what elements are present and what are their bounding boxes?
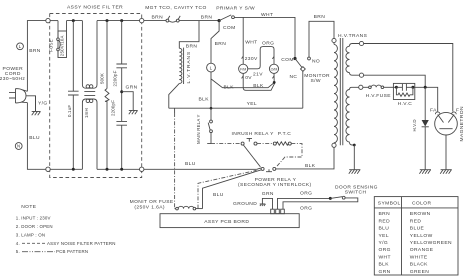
- node (500K tap bottom): [106, 168, 109, 171]
- svg-text:BLU: BLU: [185, 161, 196, 167]
- wire Y/G from plug to ground: [26, 96, 36, 112]
- fuse 250V/10A: [48, 21, 66, 58]
- svg-text:GREEN: GREEN: [410, 269, 429, 275]
- connector (bottom rail out of filter): [140, 167, 144, 171]
- svg-text:FA: FA: [430, 107, 437, 113]
- wire BRN down to lamp: [211, 21, 219, 64]
- assy noise filter dashed box: [50, 14, 142, 178]
- svg-text:3. LAMP : ON: 3. LAMP : ON: [16, 232, 45, 237]
- svg-text:MONIT OR FUSE: MONIT OR FUSE: [130, 199, 174, 205]
- svg-text:(250V 1.6A): (250V 1.6A): [134, 205, 165, 211]
- wire O/M bottom to BLK junction: [273, 73, 275, 82]
- node (0.1uF tap bottom): [72, 168, 75, 171]
- svg-text:Y/G: Y/G: [379, 240, 389, 246]
- svg-text:ASSY PCB BORD: ASSY PCB BORD: [204, 219, 249, 225]
- wire BLU from plug down to bottom rail: [27, 103, 48, 170]
- svg-text:PCB PATTERN: PCB PATTERN: [56, 249, 88, 254]
- node GRN junction: [120, 90, 123, 93]
- wire BRN from L-line top rail down to plug: [27, 21, 48, 92]
- svg-text:2200pF: 2200pF: [111, 100, 116, 116]
- svg-text:PRIMAR Y S/W: PRIMAR Y S/W: [216, 5, 255, 11]
- connector (top rail into filter): [46, 18, 50, 22]
- node N (neutral terminal circle): [15, 143, 22, 150]
- svg-text:N: N: [17, 144, 20, 149]
- svg-text:BRN: BRN: [186, 44, 198, 50]
- svg-text:RED: RED: [379, 218, 391, 224]
- wire HVC to magnetron FA: [415, 87, 438, 111]
- svg-text:2200pF: 2200pF: [113, 70, 118, 86]
- wire HV winding to ground: [353, 145, 355, 170]
- svg-text:GRN: GRN: [379, 269, 391, 275]
- svg-text:230~50Hz: 230~50Hz: [0, 76, 25, 82]
- node (500K tap top): [106, 19, 109, 22]
- svg-text:ASSY NOISE FIL TER: ASSY NOISE FIL TER: [67, 5, 123, 11]
- svg-text:5.: 5.: [16, 249, 20, 254]
- svg-text:0.1uF: 0.1uF: [67, 105, 72, 117]
- svg-text:ORG: ORG: [300, 191, 312, 197]
- node HVD top: [424, 86, 427, 89]
- relay inrush relay: [211, 131, 274, 167]
- svg-text:BLK: BLK: [224, 85, 235, 91]
- node (2200pF tap bottom): [120, 168, 123, 171]
- wire PCB pattern YEL to monitor fuse: [174, 108, 176, 113]
- svg-text:H.V.FUSE: H.V.FUSE: [366, 93, 392, 99]
- svg-text:BRN: BRN: [314, 14, 326, 20]
- wire PCB pattern PTC to power relay: [277, 144, 303, 167]
- svg-text:NC: NC: [290, 74, 298, 80]
- thermal cutout CAVITY TCO: [176, 16, 180, 22]
- svg-text:BRN: BRN: [379, 211, 391, 217]
- node (2200pF tap top): [120, 19, 123, 22]
- fuse H.V.FUSE: [363, 85, 395, 99]
- transformer HV secondary winding: [346, 85, 363, 145]
- node (lamp/main relay tap on YEL): [210, 107, 213, 110]
- wire 0V BLK from F/M: [243, 73, 274, 90]
- connector (top rail out of filter): [140, 18, 144, 22]
- node BLK junction: [273, 81, 276, 84]
- svg-text:BLACK: BLACK: [410, 262, 428, 268]
- capacitor 0.1uF: [67, 21, 79, 170]
- svg-text:500K: 500K: [100, 73, 105, 84]
- svg-text:L: L: [210, 66, 213, 71]
- svg-text:NO: NO: [312, 58, 320, 64]
- svg-text:P.T.C: P.T.C: [278, 131, 291, 137]
- svg-text:YELLOWGREEN: YELLOWGREEN: [410, 240, 452, 246]
- lamp L: [207, 63, 216, 72]
- power cord plug: [16, 89, 28, 103]
- wire BLU bottom rail to power relay: [144, 168, 257, 170]
- pcb pins: [271, 209, 275, 214]
- svg-text:L.V.TRANS: L.V.TRANS: [186, 51, 192, 83]
- connector (bottom rail into filter): [46, 167, 50, 171]
- wire BRN TCO to primary switch: [179, 20, 219, 22]
- svg-text:ORG: ORG: [262, 40, 274, 46]
- svg-text:L: L: [19, 44, 22, 49]
- power cord label: [0, 66, 25, 82]
- svg-text:Y/G: Y/G: [38, 101, 48, 107]
- svg-text:1. INPUT : 230V: 1. INPUT : 230V: [16, 216, 51, 221]
- svg-text:(SECONDAR Y INTERLOCK): (SECONDAR Y INTERLOCK): [238, 182, 312, 188]
- svg-text:BRN: BRN: [152, 15, 164, 21]
- svg-text:WHT: WHT: [245, 39, 257, 45]
- wire top rail inside filter: [67, 20, 140, 22]
- wire BLU fuse to power relay: [203, 170, 262, 209]
- svg-text:O/M: O/M: [271, 67, 278, 71]
- wire top rail left segment: [50, 20, 58, 22]
- svg-text:BLK: BLK: [305, 163, 316, 169]
- wire bottom rail inside filter: [50, 168, 139, 170]
- capacitor 2200pF (lower Y-cap): [111, 92, 127, 170]
- wire ORG lower return: [283, 198, 358, 209]
- pcb board: [160, 214, 299, 228]
- ground (noise filter GRN): [129, 110, 138, 114]
- wire L V TRANS feed from rail: [179, 21, 199, 49]
- wire 21V F/M to O/M via ORG loop: [248, 47, 274, 69]
- svg-text:BLU: BLU: [213, 192, 224, 198]
- switch door sensing: [329, 184, 378, 200]
- svg-text:SWITCH: SWITCH: [345, 190, 367, 196]
- capacitor 2200pF (upper Y-cap): [113, 21, 127, 92]
- svg-text:BLU: BLU: [379, 226, 390, 232]
- thermistor P.T.C: [257, 131, 291, 145]
- wire GRN to ground: [122, 92, 134, 111]
- ground (magnetron): [440, 170, 452, 174]
- svg-text:DOOR SENSING: DOOR SENSING: [335, 184, 378, 190]
- ground (power cord): [32, 96, 41, 116]
- capacitor H.V.C: [393, 83, 414, 107]
- svg-text:H.V.C: H.V.C: [398, 101, 413, 107]
- svg-text:BROWN: BROWN: [410, 211, 431, 217]
- note block: [16, 204, 116, 254]
- svg-text:NOTE: NOTE: [21, 204, 37, 210]
- main relay: [196, 108, 213, 144]
- wire lamp BLK to bus: [211, 72, 274, 108]
- svg-text:BRN: BRN: [29, 48, 41, 54]
- wire GRN pin to ground: [262, 198, 272, 209]
- svg-text:250V/10A: 250V/10A: [59, 35, 64, 56]
- svg-text:GRN: GRN: [262, 191, 274, 197]
- wire BRN rail to TCOs: [144, 20, 166, 22]
- svg-text:4.: 4.: [16, 241, 20, 246]
- svg-text:S/W: S/W: [311, 78, 321, 84]
- svg-text:GRN: GRN: [126, 85, 138, 91]
- svg-text:INRUSH RELA Y: INRUSH RELA Y: [232, 131, 275, 137]
- wire NC to YEL line: [302, 71, 304, 109]
- plug prongs: [9, 93, 16, 98]
- wire FA filament bottom to HV node: [364, 75, 426, 87]
- svg-text:BRN: BRN: [215, 41, 227, 47]
- svg-text:MAGNETRON: MAGNETRON: [459, 106, 465, 141]
- magnetron: [430, 106, 465, 170]
- svg-text:ORG: ORG: [379, 247, 391, 253]
- wire ORG upper to door sensing switch: [278, 198, 330, 209]
- svg-text:BLK: BLK: [379, 262, 390, 268]
- svg-text:BLUE: BLUE: [410, 226, 425, 232]
- svg-text:SYMBOL: SYMBOL: [378, 201, 401, 207]
- inductor 1mH (common mode choke): [82, 21, 97, 170]
- thermal cutout MGT TCO: [166, 16, 170, 22]
- svg-text:0V: 0V: [245, 75, 252, 81]
- svg-text:F/M: F/M: [240, 67, 246, 71]
- motor F/M (fan motor): [239, 64, 248, 73]
- wire F filament top to magnetron: [364, 44, 453, 112]
- svg-text:FUSE: FUSE: [48, 39, 53, 52]
- wire between TCOs: [169, 21, 177, 22]
- wire BLK power relay to HV trans primary: [276, 147, 334, 169]
- node L (line terminal circle): [17, 43, 24, 50]
- ground (HV winding): [349, 170, 361, 174]
- wire F/M branch WHT: [242, 17, 244, 64]
- svg-text:WHT: WHT: [261, 12, 273, 18]
- svg-text:230V: 230V: [245, 56, 258, 62]
- wire BRN from NO to HV trans primary: [309, 21, 334, 57]
- monitor switch: [281, 57, 330, 84]
- svg-text:COM: COM: [281, 57, 294, 63]
- wire PCB pattern fuse to power relay: [198, 170, 257, 208]
- node COM (primary switch common): [218, 19, 221, 22]
- svg-text:COM: COM: [223, 25, 236, 31]
- svg-text:21V: 21V: [253, 72, 263, 78]
- svg-text:RED: RED: [410, 218, 422, 224]
- svg-text:ORG: ORG: [300, 206, 312, 212]
- motor O/M (oven motor): [269, 64, 278, 73]
- svg-text:BLK: BLK: [199, 97, 210, 103]
- svg-text:YEL: YEL: [379, 233, 389, 239]
- node HV winding cold end: [353, 144, 356, 147]
- node (0.1uF tap top): [72, 19, 75, 22]
- fuse monitor fuse: [130, 199, 203, 210]
- svg-text:WHITE: WHITE: [410, 254, 428, 260]
- svg-text:GROUND: GROUND: [233, 201, 257, 207]
- diode H.V.D: [412, 87, 429, 169]
- svg-text:2. DOOR : OPEN: 2. DOOR : OPEN: [16, 224, 53, 229]
- svg-text:MAIN RELA Y: MAIN RELA Y: [196, 114, 201, 144]
- svg-text:COLOR: COLOR: [412, 201, 431, 207]
- transformer filament winding: [346, 41, 364, 77]
- svg-text:YEL: YEL: [247, 101, 257, 107]
- svg-text:ORANGE: ORANGE: [410, 247, 434, 253]
- table symbol/color: [374, 197, 458, 275]
- power relay secondary interlock: [238, 167, 312, 188]
- resistor 500K: [100, 21, 110, 170]
- svg-text:1mH: 1mH: [84, 108, 89, 118]
- svg-text:ASSY NOISE FILTER PATTERN: ASSY NOISE FILTER PATTERN: [47, 241, 116, 246]
- wire YEL line: [169, 107, 303, 109]
- svg-text:WHT: WHT: [379, 254, 391, 260]
- ground (HVD): [419, 170, 431, 174]
- svg-text:MGT TCO, CAVITY TCO: MGT TCO, CAVITY TCO: [145, 5, 207, 11]
- svg-text:BLU: BLU: [29, 135, 40, 141]
- wire WHT to monitor switch: [234, 17, 295, 58]
- ground (pcb GRN): [260, 204, 266, 206]
- svg-text:H.V.D: H.V.D: [412, 119, 417, 131]
- svg-text:YELLOW: YELLOW: [410, 233, 433, 239]
- wire L V TRANS to YEL line: [169, 83, 180, 108]
- svg-text:BRN: BRN: [201, 15, 213, 21]
- transformer L.V.TRANS: [179, 48, 192, 84]
- svg-text:BLK: BLK: [253, 83, 264, 89]
